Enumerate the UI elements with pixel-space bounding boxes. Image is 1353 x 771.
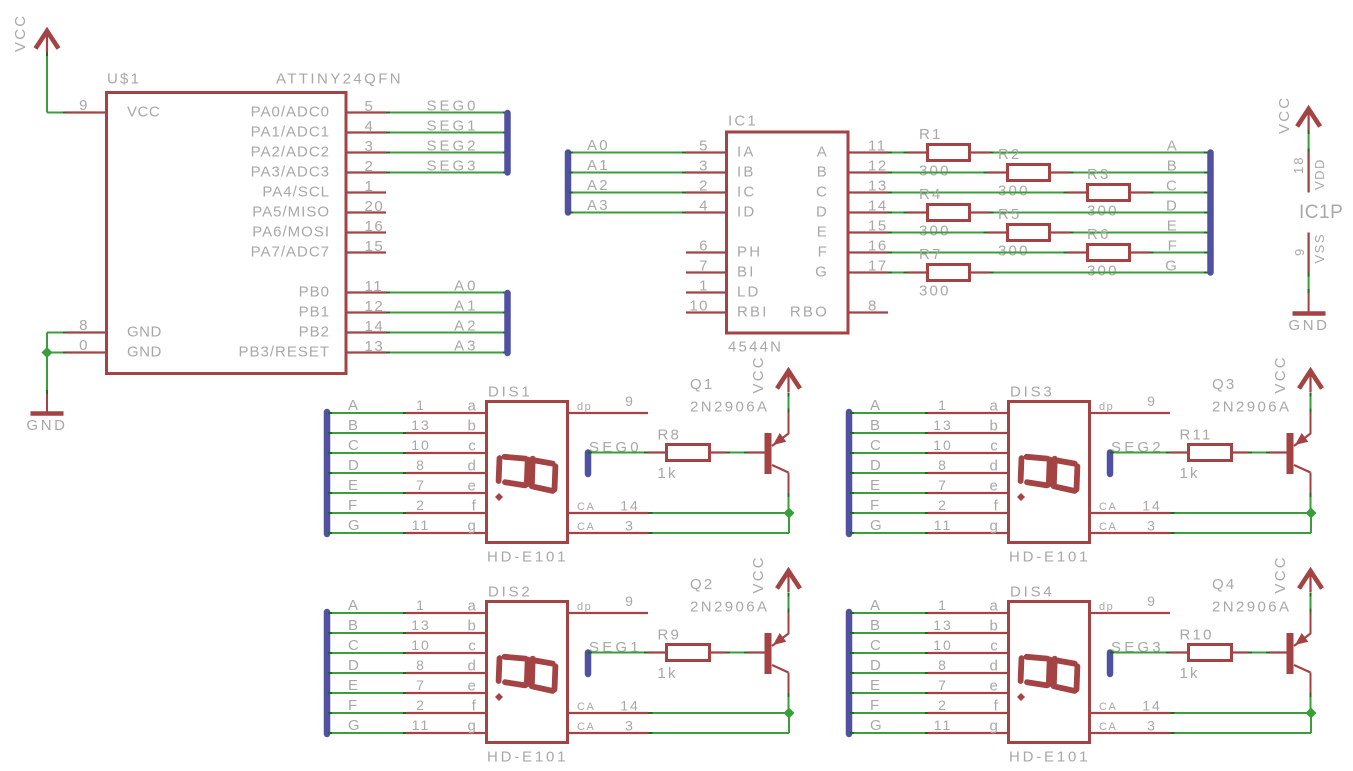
svg-text:20: 20 xyxy=(365,198,385,215)
wire net A to DIS1 xyxy=(328,412,407,414)
svg-text:dp: dp xyxy=(577,601,592,613)
wire net D to DIS1 xyxy=(328,472,407,474)
pin R7 right stub xyxy=(970,271,990,273)
wire CA2 to VCC rail xyxy=(649,532,790,534)
wire net G to DIS1 xyxy=(328,532,407,534)
svg-text:12: 12 xyxy=(868,158,888,175)
wire emitter to VCC xyxy=(788,393,790,413)
svg-text:F: F xyxy=(818,244,829,261)
svg-text:RBI: RBI xyxy=(737,304,769,321)
pin Q4 collector stub xyxy=(1310,673,1312,694)
svg-text:R7: R7 xyxy=(919,246,943,263)
wire SEG2 to R11 xyxy=(1110,452,1170,454)
svg-text:g: g xyxy=(467,518,478,535)
svg-text:PA7/ADC7: PA7/ADC7 xyxy=(251,244,330,261)
svg-text:A2: A2 xyxy=(454,318,478,335)
svg-text:f: f xyxy=(994,498,1000,515)
svg-text:7: 7 xyxy=(416,677,426,693)
svg-text:VCC: VCC xyxy=(750,555,767,593)
wire IC1 output to R5 xyxy=(888,232,988,234)
wire net G to DIS4 xyxy=(850,732,929,734)
pin U$1 PB1 stub xyxy=(346,311,386,313)
wire net B to DIS3 xyxy=(850,432,929,434)
wire collector to CA rail xyxy=(1310,693,1312,713)
resistor R9 1k xyxy=(667,645,710,661)
pin IC1 RBO stub xyxy=(848,311,888,313)
pin Q4 base stub xyxy=(1270,651,1287,653)
svg-text:PH: PH xyxy=(737,244,762,261)
svg-text:c: c xyxy=(990,438,1000,455)
svg-text:D: D xyxy=(348,657,361,674)
wire net B to DIS2 xyxy=(328,632,407,634)
pin DIS3 CA stub 1 xyxy=(1090,512,1171,514)
svg-text:9: 9 xyxy=(625,393,635,409)
svg-text:C: C xyxy=(348,637,361,654)
wire CA to VCC rail xyxy=(1171,712,1312,714)
svg-text:3: 3 xyxy=(699,158,709,175)
svg-text:PA1/ADC1: PA1/ADC1 xyxy=(251,124,330,141)
bus bar A0-A3 (IC1 input) xyxy=(565,153,572,213)
svg-text:e: e xyxy=(467,478,478,495)
svg-text:10: 10 xyxy=(933,437,953,453)
pin R2 left stub xyxy=(988,171,1008,173)
svg-text:15: 15 xyxy=(868,218,888,235)
wire collector to CA rail xyxy=(788,693,790,713)
pin R4 left stub xyxy=(908,211,928,213)
pin Q1 base stub xyxy=(748,451,765,453)
svg-text:11: 11 xyxy=(412,517,431,533)
wire net C to DIS1 xyxy=(328,452,407,454)
pin DIS3 a stub xyxy=(928,412,1008,414)
svg-text:A0: A0 xyxy=(454,278,478,295)
svg-text:11: 11 xyxy=(412,717,431,733)
svg-text:d: d xyxy=(989,658,1000,675)
wire net A3 to IC1 xyxy=(569,212,686,214)
svg-text:1: 1 xyxy=(699,278,709,295)
wire net A to DIS4 xyxy=(850,612,929,614)
svg-text:f: f xyxy=(472,698,478,715)
svg-text:5: 5 xyxy=(365,98,375,115)
svg-text:D: D xyxy=(1166,198,1179,215)
svg-text:2: 2 xyxy=(365,158,375,175)
svg-text:PA0/ADC0: PA0/ADC0 xyxy=(251,104,330,121)
svg-text:A: A xyxy=(870,597,882,614)
svg-text:PB1: PB1 xyxy=(299,304,330,321)
svg-text:10: 10 xyxy=(689,298,709,315)
resistor R8 1k xyxy=(667,445,710,461)
wire R8 to Q1 base xyxy=(726,452,748,454)
pin Q2 base stub xyxy=(748,651,765,653)
svg-text:13: 13 xyxy=(365,338,385,355)
wire net G to DIS3 xyxy=(850,532,929,534)
resistor R2 300 xyxy=(1008,165,1050,181)
wire collector to CA rail xyxy=(788,493,790,513)
wire CA rail vertical xyxy=(788,713,790,733)
wire net E to DIS3 xyxy=(850,492,929,494)
wire net SEG1 xyxy=(386,132,507,134)
svg-text:A: A xyxy=(348,597,360,614)
svg-text:A: A xyxy=(1167,138,1179,155)
pin Q3 base stub xyxy=(1270,451,1287,453)
pin IC1 A stub xyxy=(848,151,888,153)
pin DIS1 f stub xyxy=(406,512,486,514)
svg-text:1k: 1k xyxy=(1180,665,1200,682)
power symbol VCC (Q4) xyxy=(1299,571,1322,592)
pin U$1 PA2/ADC2 stub xyxy=(346,151,386,153)
power symbol VCC (Q1) xyxy=(777,371,800,392)
pin DIS4 g stub xyxy=(928,732,1008,734)
svg-text:HD-E101: HD-E101 xyxy=(487,749,568,766)
svg-text:8: 8 xyxy=(868,298,878,315)
svg-text:0: 0 xyxy=(79,337,89,354)
pin IC1 IC stub xyxy=(686,191,726,193)
svg-text:R8: R8 xyxy=(658,426,682,443)
pin R3 right stub xyxy=(1130,191,1150,193)
svg-text:7: 7 xyxy=(938,677,948,693)
pin Q2 collector stub xyxy=(788,673,790,694)
svg-text:IC: IC xyxy=(737,184,756,201)
svg-text:1: 1 xyxy=(938,597,948,613)
pin IC1 IB stub xyxy=(686,171,726,173)
svg-text:1: 1 xyxy=(365,178,375,195)
pin Q1 emitter stub xyxy=(788,413,790,435)
svg-text:R1: R1 xyxy=(919,126,943,143)
svg-text:CA: CA xyxy=(577,701,595,713)
resistor R10 1k xyxy=(1189,645,1232,661)
svg-text:G: G xyxy=(815,264,829,281)
svg-text:VDD: VDD xyxy=(1312,158,1327,190)
pin DIS4 CA stub 1 xyxy=(1090,712,1171,714)
svg-text:CA: CA xyxy=(1099,501,1117,513)
pin IC1 PH stub xyxy=(686,251,726,253)
svg-text:E: E xyxy=(1167,218,1179,235)
pin Q4 emitter stub xyxy=(1310,613,1312,635)
wire net G to DIS2 xyxy=(328,732,407,734)
svg-text:3: 3 xyxy=(1147,718,1157,734)
svg-text:2N2906A: 2N2906A xyxy=(1212,599,1291,616)
svg-text:f: f xyxy=(472,498,478,515)
bus stub SEG1 xyxy=(585,653,592,675)
pin DIS2 dp stub xyxy=(568,612,648,614)
svg-text:G: G xyxy=(348,717,362,734)
wire net B to DIS1 xyxy=(328,432,407,434)
pin DIS1 b stub xyxy=(406,432,486,434)
bus stub SEG3 xyxy=(1107,653,1114,675)
svg-text:VCC: VCC xyxy=(1272,555,1289,593)
pin R7 left stub xyxy=(908,271,928,273)
svg-text:A: A xyxy=(817,144,829,161)
pin DIS2 e stub xyxy=(406,692,486,694)
svg-text:C: C xyxy=(1166,178,1179,195)
svg-text:g: g xyxy=(467,718,478,735)
svg-text:R4: R4 xyxy=(919,186,943,203)
svg-text:IB: IB xyxy=(737,164,756,181)
svg-text:10: 10 xyxy=(411,437,431,453)
wire SEG3 to R10 xyxy=(1110,652,1170,654)
svg-text:14: 14 xyxy=(868,198,888,215)
svg-text:CA: CA xyxy=(1099,521,1117,533)
wire GND vertical xyxy=(46,333,48,395)
pin R6 right stub xyxy=(1130,251,1150,253)
bus stub SEG0 xyxy=(585,453,592,475)
svg-text:9: 9 xyxy=(625,593,635,609)
wire emitter to VCC xyxy=(788,593,790,613)
wire net F to DIS3 xyxy=(850,512,929,514)
svg-text:VCC: VCC xyxy=(750,355,767,393)
svg-text:1: 1 xyxy=(938,397,948,413)
pin DIS3 f stub xyxy=(928,512,1008,514)
svg-text:D: D xyxy=(870,457,883,474)
pin U$1 PA6/MOSI stub xyxy=(346,231,386,233)
pin DIS4 dp stub xyxy=(1090,612,1170,614)
svg-text:PA4/SCL: PA4/SCL xyxy=(262,184,330,201)
svg-text:2: 2 xyxy=(938,697,948,713)
pin R3 left stub xyxy=(1068,191,1088,193)
pin DIS2 CA stub 1 xyxy=(568,712,649,714)
wire VCC to IC1P VDD xyxy=(1308,130,1310,153)
svg-text:14: 14 xyxy=(620,498,640,514)
resistor R5 300 xyxy=(1008,225,1050,241)
svg-text:a: a xyxy=(989,598,1000,615)
svg-text:4544N: 4544N xyxy=(728,339,783,356)
svg-text:12: 12 xyxy=(365,298,385,315)
pin IC1 B stub xyxy=(848,171,888,173)
svg-text:c: c xyxy=(468,638,478,655)
svg-text:GND: GND xyxy=(127,344,162,361)
pin DIS3 e stub xyxy=(928,492,1008,494)
wire R3 to segment bus xyxy=(1150,192,1209,194)
svg-text:1: 1 xyxy=(416,397,426,413)
node junction (Q1 collector / CA) xyxy=(784,508,795,519)
wire CA to VCC rail xyxy=(1171,512,1312,514)
svg-text:14: 14 xyxy=(1142,498,1162,514)
pin Q3 collector stub xyxy=(1310,473,1312,494)
transistor Q4 2N2906A (PNP) xyxy=(1287,633,1311,674)
svg-text:14: 14 xyxy=(365,318,385,335)
node junction (Q3 collector / CA) xyxy=(1306,508,1317,519)
pin U$1 PA0/ADC0 stub xyxy=(346,111,386,113)
resistor R3 300 xyxy=(1088,185,1130,201)
wire CA rail vertical xyxy=(1310,713,1312,733)
wire GND1 horizontal xyxy=(47,332,67,334)
svg-text:R2: R2 xyxy=(998,146,1022,163)
svg-text:C: C xyxy=(870,637,883,654)
wire net A1 xyxy=(386,312,507,314)
svg-text:e: e xyxy=(989,478,1000,495)
pin DIS1 c stub xyxy=(406,452,486,454)
wire SEG0 to R8 xyxy=(588,452,648,454)
svg-text:b: b xyxy=(467,418,478,435)
svg-text:PB2: PB2 xyxy=(299,324,330,341)
node GND junction xyxy=(42,347,53,358)
svg-text:7: 7 xyxy=(699,258,709,275)
pin U$1 GND stub 1 xyxy=(66,331,106,333)
svg-text:F: F xyxy=(1168,238,1179,255)
svg-text:IA: IA xyxy=(737,144,756,161)
pin DIS1 CA stub 2 xyxy=(568,532,649,534)
wire IC1 output to R6 xyxy=(888,252,1068,254)
svg-text:SEG0: SEG0 xyxy=(426,98,478,115)
svg-text:2: 2 xyxy=(416,497,426,513)
svg-text:CA: CA xyxy=(577,721,595,733)
bus bar A-G (DIS2 input) xyxy=(324,612,331,734)
wire net B to DIS4 xyxy=(850,632,929,634)
pin U$1 PA3/ADC3 stub xyxy=(346,171,386,173)
svg-text:1k: 1k xyxy=(658,465,678,482)
svg-text:CA: CA xyxy=(1099,721,1117,733)
wire net C to DIS2 xyxy=(328,652,407,654)
7-segment digit glyph (DIS2) xyxy=(499,657,556,691)
wire net D to DIS3 xyxy=(850,472,929,474)
wire VCC vertical xyxy=(46,52,48,113)
svg-text:E: E xyxy=(817,224,829,241)
svg-text:E: E xyxy=(870,677,882,694)
wire R7 to segment bus xyxy=(990,272,1209,274)
svg-text:F: F xyxy=(348,697,359,714)
svg-text:B: B xyxy=(817,164,829,181)
svg-text:6: 6 xyxy=(699,238,709,255)
wire net E to DIS4 xyxy=(850,692,929,694)
pin DIS1 CA stub 1 xyxy=(568,512,649,514)
pin U$1 PA5/MISO stub xyxy=(346,211,386,213)
wire R10 to Q4 base xyxy=(1248,652,1270,654)
pin Q3 emitter stub xyxy=(1310,413,1312,435)
transistor Q1 2N2906A (PNP) xyxy=(765,433,789,474)
svg-text:14: 14 xyxy=(620,698,640,714)
svg-text:C: C xyxy=(870,437,883,454)
svg-text:G: G xyxy=(348,517,362,534)
transistor Q3 2N2906A (PNP) xyxy=(1287,433,1311,474)
pin DIS3 c stub xyxy=(928,452,1008,454)
pin DIS2 b stub xyxy=(406,632,486,634)
bus stub SEG2 xyxy=(1107,453,1114,475)
pin U$1 VCC stub xyxy=(66,111,106,113)
wire net D to DIS2 xyxy=(328,672,407,674)
pin U$1 PB2 stub xyxy=(346,331,386,333)
svg-text:3: 3 xyxy=(625,718,635,734)
ground symbol GND (left) xyxy=(31,411,64,416)
svg-text:13: 13 xyxy=(933,417,953,433)
svg-text:ID: ID xyxy=(737,204,756,221)
svg-text:11: 11 xyxy=(934,717,953,733)
transistor Q2 2N2906A (PNP) xyxy=(765,633,789,674)
bus bar A0-A3 (U$1) xyxy=(504,293,511,353)
svg-text:14: 14 xyxy=(1142,698,1162,714)
pin DIS4 a stub xyxy=(928,612,1008,614)
svg-text:SEG2: SEG2 xyxy=(426,138,478,155)
svg-text:1k: 1k xyxy=(658,665,678,682)
svg-text:dp: dp xyxy=(1099,601,1114,613)
svg-text:E: E xyxy=(348,477,360,494)
wire net C to DIS4 xyxy=(850,652,929,654)
wire net A2 to IC1 xyxy=(569,192,686,194)
wire R11 to Q3 base xyxy=(1248,452,1270,454)
svg-text:13: 13 xyxy=(411,617,431,633)
pin DIS2 a stub xyxy=(406,612,486,614)
svg-text:CA: CA xyxy=(577,501,595,513)
pin R1 left stub xyxy=(908,151,928,153)
wire CA rail vertical xyxy=(1310,513,1312,533)
svg-text:300: 300 xyxy=(1087,203,1119,220)
wire collector to CA rail xyxy=(1310,493,1312,513)
wire emitter to VCC xyxy=(1310,593,1312,613)
pin IC1 IA stub xyxy=(686,151,726,153)
svg-text:8: 8 xyxy=(79,317,89,334)
svg-text:5: 5 xyxy=(699,138,709,155)
pin DIS3 d stub xyxy=(928,472,1008,474)
pin R8 left stub xyxy=(648,451,667,453)
svg-text:A1: A1 xyxy=(454,298,478,315)
svg-text:BI: BI xyxy=(737,264,756,281)
svg-text:2: 2 xyxy=(699,178,709,195)
resistor R6 300 xyxy=(1088,245,1130,261)
wire net A to DIS3 xyxy=(850,412,929,414)
svg-text:3: 3 xyxy=(1147,518,1157,534)
power symbol VCC (IC1P) xyxy=(1297,109,1320,130)
svg-text:F: F xyxy=(348,497,359,514)
svg-text:A0: A0 xyxy=(587,137,610,154)
svg-text:9: 9 xyxy=(79,97,89,114)
svg-text:e: e xyxy=(467,678,478,695)
pin U$1 PB0 stub xyxy=(346,291,386,293)
svg-text:8: 8 xyxy=(938,457,948,473)
svg-text:dp: dp xyxy=(577,401,592,413)
pin DIS2 c stub xyxy=(406,652,486,654)
svg-text:A: A xyxy=(870,397,882,414)
wire R9 to Q2 base xyxy=(726,652,748,654)
wire net A to DIS2 xyxy=(328,612,407,614)
power symbol VCC (Q2) xyxy=(777,571,800,592)
bus bar A-G (DIS4 input) xyxy=(846,612,853,734)
svg-text:GND: GND xyxy=(26,417,67,434)
pin R10 left stub xyxy=(1170,651,1189,653)
svg-text:8: 8 xyxy=(938,657,948,673)
svg-text:R10: R10 xyxy=(1180,626,1214,643)
svg-text:17: 17 xyxy=(868,258,888,275)
pin DIS1 g stub xyxy=(406,532,486,534)
svg-text:f: f xyxy=(994,698,1000,715)
pin R5 left stub xyxy=(988,231,1008,233)
svg-text:PA3/ADC3: PA3/ADC3 xyxy=(251,164,330,181)
svg-text:PB0: PB0 xyxy=(299,284,330,301)
wire R1 to segment bus xyxy=(990,152,1209,154)
pin DIS3 b stub xyxy=(928,432,1008,434)
svg-text:a: a xyxy=(467,398,478,415)
svg-text:G: G xyxy=(870,717,884,734)
svg-text:b: b xyxy=(989,618,1000,635)
svg-text:2N2906A: 2N2906A xyxy=(690,599,769,616)
wire CA to VCC rail xyxy=(649,512,790,514)
svg-text:4: 4 xyxy=(365,118,375,135)
svg-text:PA2/ADC2: PA2/ADC2 xyxy=(251,144,330,161)
svg-text:VCC: VCC xyxy=(12,14,29,52)
wire net A3 xyxy=(386,352,507,354)
svg-text:DIS2: DIS2 xyxy=(488,584,533,601)
svg-text:18: 18 xyxy=(1291,156,1306,174)
wire net SEG3 xyxy=(386,172,507,174)
svg-text:Q3: Q3 xyxy=(1212,376,1236,393)
svg-text:7: 7 xyxy=(416,477,426,493)
svg-text:2N2906A: 2N2906A xyxy=(690,399,769,416)
svg-text:B: B xyxy=(348,617,360,634)
svg-text:E: E xyxy=(870,477,882,494)
svg-text:A1: A1 xyxy=(587,157,610,174)
wire R2 to segment bus xyxy=(1070,172,1209,174)
svg-text:g: g xyxy=(989,518,1000,535)
svg-text:3: 3 xyxy=(365,138,375,155)
wire CA rail vertical xyxy=(788,513,790,533)
svg-text:VCC: VCC xyxy=(127,104,160,121)
